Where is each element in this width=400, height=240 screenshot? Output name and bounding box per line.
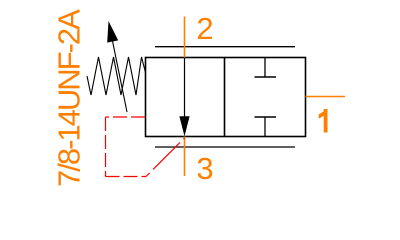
- adjustment arrow shaft: [113, 41, 128, 112]
- port 3 surface line: [155, 146, 295, 148]
- port 2 surface line: [155, 46, 295, 48]
- svg-text:2: 2: [196, 11, 213, 46]
- pilot seat T bottom vertical: [264, 117, 266, 137]
- valve body divider: [224, 58, 226, 137]
- pilot drain line diagonal segment: [146, 138, 185, 177]
- pilot seat T top vertical: [264, 58, 266, 78]
- svg-text:7/8-14UNF-2A: 7/8-14UNF-2A: [52, 9, 87, 187]
- adjustment arrowhead: [107, 21, 118, 43]
- pilot seat T bottom bar: [255, 116, 277, 118]
- port 2 line: [184, 17, 186, 58]
- flow path arrow shaft: [184, 58, 186, 118]
- spring: [87, 57, 146, 95]
- pilot drain line left segment: [105, 117, 107, 177]
- svg-text:3: 3: [196, 151, 213, 186]
- port 3 line: [184, 137, 186, 177]
- port 1 label: [319, 109, 328, 133]
- pilot drain line top segment: [106, 116, 146, 118]
- pilot seat T top bar: [255, 76, 277, 78]
- valve body: [146, 58, 306, 137]
- port 1 line: [306, 96, 346, 98]
- flow path arrowhead: [179, 116, 189, 136]
- pilot drain line bottom segment: [106, 176, 147, 178]
